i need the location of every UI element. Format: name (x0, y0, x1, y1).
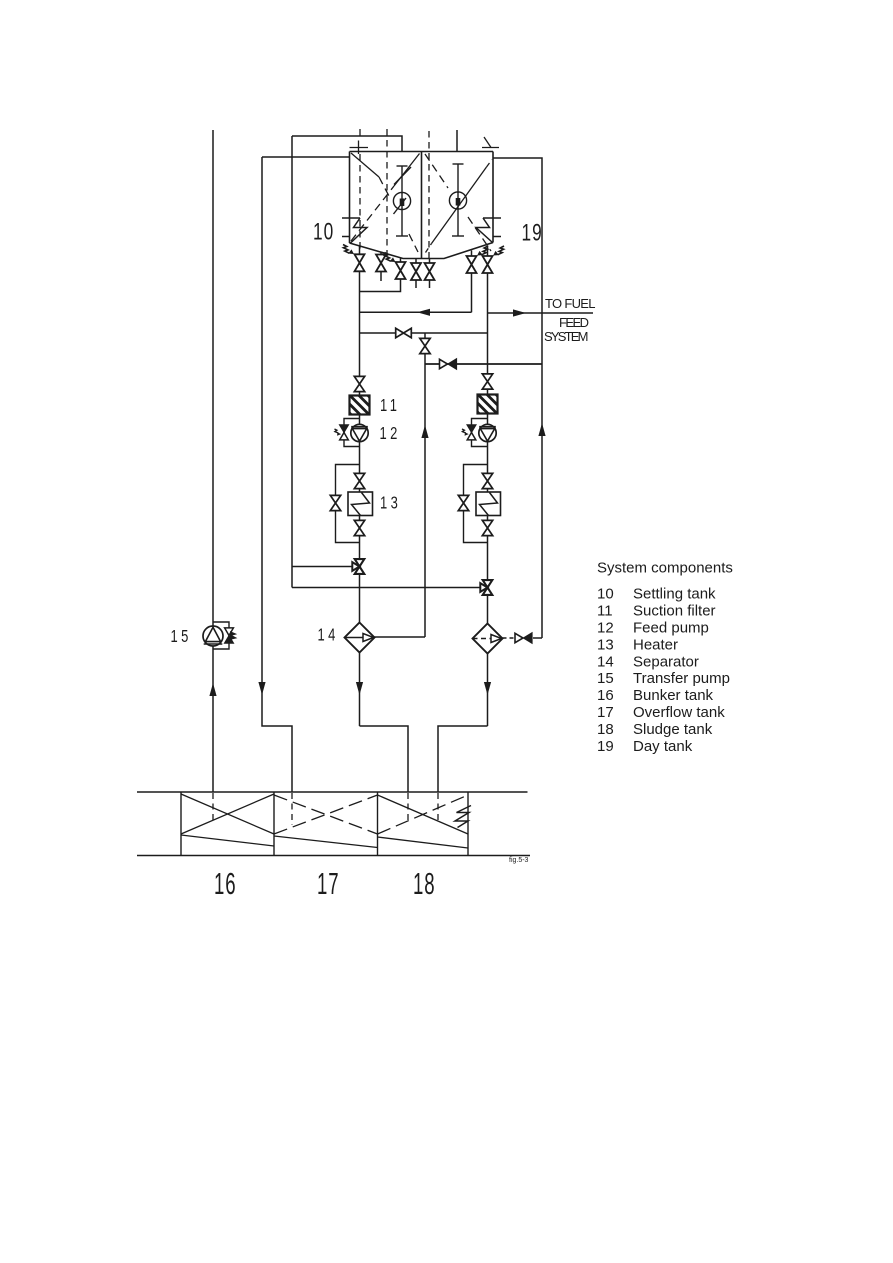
svg-text:12: 12 (380, 424, 401, 444)
svg-text:Heater: Heater (633, 636, 678, 653)
svg-text:17: 17 (597, 704, 614, 721)
svg-text:Transfer pump: Transfer pump (633, 670, 730, 687)
svg-text:18: 18 (597, 721, 614, 738)
svg-text:FEED: FEED (559, 315, 589, 330)
svg-text:10: 10 (313, 219, 334, 245)
svg-text:13: 13 (380, 494, 401, 514)
svg-text:18: 18 (413, 868, 435, 902)
svg-text:19: 19 (597, 738, 614, 755)
svg-text:SYSTEM: SYSTEM (544, 329, 589, 344)
svg-text:Suction filter: Suction filter (633, 603, 716, 620)
svg-text:10: 10 (597, 586, 614, 603)
svg-text:13: 13 (597, 636, 614, 653)
svg-text:19: 19 (522, 220, 543, 246)
svg-text:14: 14 (597, 653, 614, 670)
svg-text:System components: System components (597, 560, 733, 577)
svg-text:15: 15 (171, 627, 192, 647)
svg-text:16: 16 (214, 868, 236, 902)
svg-text:Feed pump: Feed pump (633, 620, 709, 637)
svg-text:11: 11 (380, 396, 400, 416)
svg-text:Day tank: Day tank (633, 738, 693, 755)
svg-text:Sludge tank: Sludge tank (633, 721, 713, 738)
svg-text:17: 17 (317, 868, 339, 902)
svg-text:11: 11 (597, 603, 613, 620)
svg-text:TO FUEL: TO FUEL (545, 296, 596, 311)
svg-text:12: 12 (597, 620, 614, 637)
svg-text:Overflow tank: Overflow tank (633, 704, 725, 721)
svg-text:fig.5-3: fig.5-3 (509, 857, 529, 864)
svg-text:Separator: Separator (633, 653, 699, 670)
svg-text:14: 14 (318, 625, 339, 645)
svg-text:15: 15 (597, 670, 614, 687)
svg-text:16: 16 (597, 687, 614, 704)
svg-text:Settling tank: Settling tank (633, 586, 716, 603)
svg-text:Bunker tank: Bunker tank (633, 687, 714, 704)
